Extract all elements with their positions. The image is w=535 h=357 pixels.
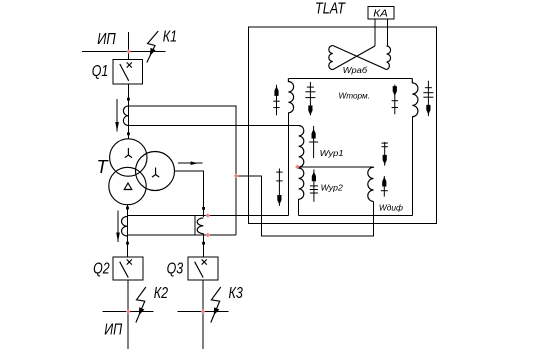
fault K2 arrowhead <box>139 307 145 315</box>
arrow third winding head <box>191 161 198 165</box>
wire Wtorm loop left edge lower part <box>287 113 289 216</box>
fault K3 arrowhead <box>214 307 220 315</box>
arrow A1 left of Wtorm left coil <box>273 85 279 116</box>
svg-text:Wдиф: Wдиф <box>379 202 403 212</box>
svg-text:ИП: ИП <box>104 322 122 339</box>
wire secondary pair bottom <box>128 234 237 236</box>
wire KA right lead <box>387 19 389 47</box>
wire feeder below Q3 <box>202 280 204 349</box>
winding Wrab left coil <box>329 46 333 70</box>
wire loop bottom edge <box>299 215 413 217</box>
symbol star winding 1 <box>125 148 132 158</box>
arrow line at TA3 <box>117 211 119 242</box>
CT TA2 secondary bracket <box>194 216 196 236</box>
arrow A2 inside loop left <box>305 82 315 115</box>
symbol delta winding 2 <box>124 183 132 190</box>
winding Wur2 coil <box>299 167 304 199</box>
arrow A9 left channel lower <box>276 169 282 206</box>
transformer T winding 3 circle <box>136 152 175 191</box>
node red marker K3 <box>201 309 206 314</box>
breaker Q1 contact cross <box>127 62 132 67</box>
winding Wur1 coil <box>299 126 304 168</box>
node red marker top bus <box>126 49 131 54</box>
breaker Q3 contact cross <box>202 259 207 264</box>
node red marker Wur junction <box>295 165 300 170</box>
breaker Q2 box <box>113 257 143 280</box>
node red marker mid column <box>234 174 239 179</box>
arrow at TA1 head <box>115 122 119 132</box>
node dot TA2 top <box>202 207 205 210</box>
fault K1 lightning <box>147 31 159 63</box>
breaker Q3 blade <box>195 262 204 278</box>
svg-text:Q3: Q3 <box>167 261 184 278</box>
svg-text:Wур2: Wур2 <box>321 183 343 193</box>
breaker Q3 contact cross <box>202 259 207 264</box>
svg-text:Wторм.: Wторм. <box>339 90 370 100</box>
CT TA3 winding bumps <box>122 216 128 236</box>
arrow line third winding <box>178 162 203 164</box>
winding Wrab right coil <box>387 46 391 70</box>
wire secondary pair top to Wtorm loop <box>128 215 289 217</box>
block TLAT outline <box>249 27 437 224</box>
fault K1 arrowhead <box>150 48 156 56</box>
breaker Q2 blade <box>120 262 129 278</box>
breaker Q1 blade <box>120 64 129 81</box>
winding Wtorm right coil <box>412 79 418 117</box>
node dot TA1 bottom <box>127 132 130 135</box>
breaker Q1 contact cross <box>127 62 132 67</box>
svg-text:К1: К1 <box>163 29 177 46</box>
node red marker TA2 top <box>206 213 211 218</box>
wire Wtorm loop right edge lower part <box>411 117 413 216</box>
wire bottom bus ИП right <box>178 311 229 313</box>
winding Wrab cross diagonal 1 <box>333 46 387 70</box>
svg-text:К3: К3 <box>229 285 243 302</box>
fault K2 lightning <box>136 287 146 323</box>
arrow A7 above Wdif <box>382 142 388 166</box>
svg-text:ИП: ИП <box>97 31 116 48</box>
arrow A3 inside loop right <box>392 85 398 115</box>
svg-text:Q1: Q1 <box>92 63 109 80</box>
wire top bus ИП <box>82 51 166 53</box>
wire TA1 bottom secondary to Wur1 <box>129 125 299 127</box>
relay KA box <box>368 6 394 19</box>
transformer T winding 1 circle <box>110 139 147 176</box>
symbol star winding 3 <box>152 168 159 178</box>
node red marker K2 <box>126 309 131 314</box>
breaker Q2 contact cross <box>127 259 132 264</box>
wire TA2 to Q3 <box>203 234 205 257</box>
arrow line at TA1 <box>116 99 118 132</box>
winding Wdif coil <box>368 167 374 202</box>
wire Wdif bottom loop <box>236 176 373 236</box>
node dot TA1 top <box>127 98 130 101</box>
wire feeder Q1 to T <box>128 84 130 139</box>
wire feeder T to Q2 <box>127 205 129 257</box>
arrow A5 at Wur1 <box>309 126 318 158</box>
svg-text:К2: К2 <box>154 285 168 302</box>
wire Wtorm loop top edge <box>288 78 412 80</box>
svg-text:Wур1: Wур1 <box>320 148 344 158</box>
wire Wur2 bottom stub <box>298 199 300 215</box>
node dot T bottom <box>126 207 129 210</box>
CT TA2 winding bumps <box>197 218 203 234</box>
breaker Q1 box <box>113 59 142 84</box>
winding Wtorm left coil <box>288 79 293 113</box>
wire KA left lead <box>374 19 376 46</box>
wire TA1 top secondary to right and down <box>129 106 237 235</box>
node red marker TA2 bottom <box>206 233 211 238</box>
arrow A6 at Wur2 <box>310 170 318 202</box>
breaker Q2 contact cross <box>127 259 132 264</box>
svg-text:КА: КА <box>373 9 388 20</box>
arrow at TA3 head <box>116 233 120 243</box>
wire feeder above Q1 <box>128 32 130 59</box>
wire feeder below Q2 <box>127 280 129 349</box>
fault K3 lightning <box>211 287 221 323</box>
arrow A4 right of Wtorm right coil <box>423 81 433 116</box>
svg-text:Q2: Q2 <box>93 261 110 278</box>
svg-text:TLAT: TLAT <box>315 0 346 17</box>
svg-text:Wраб: Wраб <box>343 65 369 75</box>
CT TA1 winding bumps <box>123 106 128 126</box>
wire bottom bus ИП left <box>103 311 154 313</box>
wire third winding to TA2 branch <box>175 171 204 217</box>
winding Wrab cross diagonal 2 <box>333 46 375 70</box>
node dot TA2 bottom <box>202 242 205 245</box>
transformer T winding 2 circle <box>109 167 146 204</box>
arrow A8 right of Wdif <box>381 176 388 197</box>
breaker Q3 box <box>188 257 218 280</box>
wire Wur junction to Wdif <box>297 166 373 168</box>
node dot TA3 bottom <box>126 242 129 245</box>
